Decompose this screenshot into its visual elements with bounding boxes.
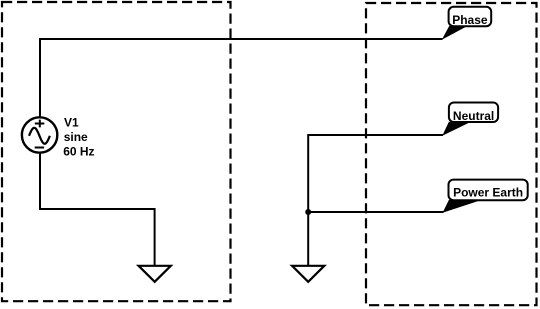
wire down to left ground — [154, 208, 156, 267]
enclosure box right (dashed) — [366, 3, 537, 305]
Power Earth flag box — [449, 180, 528, 201]
Neutral flag box — [449, 103, 498, 123]
svg-text:sine: sine — [64, 130, 88, 144]
Phase flag box — [449, 7, 492, 26]
Power Earth flag pointer — [443, 200, 480, 213]
wire V1 plus terminal up — [39, 39, 41, 118]
wire V1 minus to left ground horizontal — [39, 208, 155, 210]
Phase flag pointer — [442, 26, 466, 40]
wire Neutral net horizontal — [308, 134, 443, 136]
net flag Neutral — [442, 103, 498, 136]
wire Power Earth branch horizontal — [308, 211, 443, 213]
V1 plus sign — [35, 120, 45, 128]
svg-text:Phase: Phase — [452, 13, 488, 27]
V1 minus sign — [35, 147, 44, 149]
wire Neutral down to right ground — [307, 134, 309, 266]
voltage source V1 — [22, 117, 57, 152]
value label V1 sine 60 Hz — [63, 115, 94, 158]
V1 sine waveform — [29, 128, 50, 144]
wire V1 minus terminal down — [39, 153, 41, 211]
enclosure box left (dashed) — [2, 2, 231, 301]
Neutral flag pointer — [442, 122, 470, 136]
net flag Power Earth — [443, 180, 528, 213]
net flag Phase — [442, 7, 491, 40]
ground left — [139, 266, 171, 282]
svg-text:60 Hz: 60 Hz — [63, 145, 94, 159]
svg-text:Power Earth: Power Earth — [453, 185, 523, 199]
ground right — [292, 266, 324, 282]
junction dot Neutral / Power Earth — [305, 209, 311, 215]
wire Phase net horizontal — [39, 38, 443, 40]
svg-text:V1: V1 — [64, 115, 79, 129]
svg-text:Neutral: Neutral — [453, 109, 494, 123]
V1 circle body — [22, 117, 57, 152]
